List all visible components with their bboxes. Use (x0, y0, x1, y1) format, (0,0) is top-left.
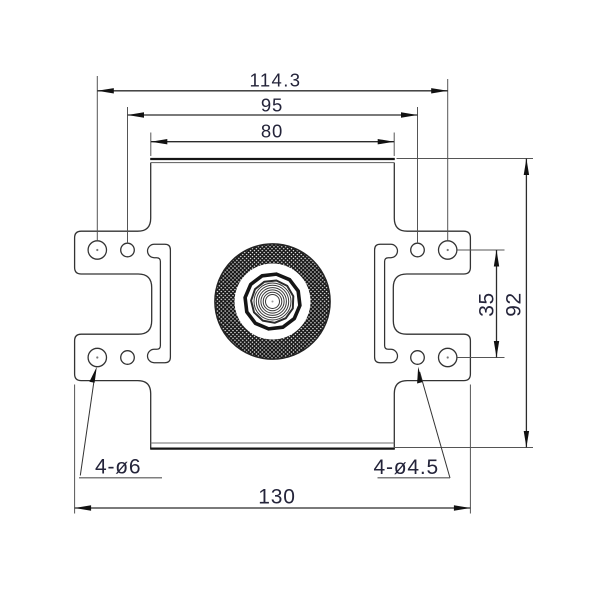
plate outline right half (393, 163, 470, 449)
svg-text:92: 92 (503, 292, 526, 317)
svg-text:35: 35 (476, 292, 499, 317)
dim line 92 (525, 159, 527, 448)
leader 4-d6 (80, 372, 95, 476)
label 4-d4.5 underline (378, 477, 451, 479)
hole big top-right (439, 241, 457, 259)
svg-text:4-ø4.5: 4-ø4.5 (374, 456, 440, 479)
dim line 95 (128, 114, 418, 116)
hole big top-left (88, 241, 106, 259)
ext line 114.3 right (447, 79, 449, 241)
center boss white core (235, 264, 311, 340)
ext line 35 top (457, 249, 504, 251)
dim line 114.3 (97, 90, 447, 92)
slot right (375, 244, 398, 362)
hole big bottom-left (88, 348, 106, 366)
top flange dark line (150, 158, 395, 160)
leader 4-d4.5 (420, 372, 450, 478)
hole small top-left (121, 243, 135, 257)
ext line 114.3 left (96, 76, 98, 241)
hole small bottom-left (121, 351, 135, 365)
ext line 95 right (417, 107, 419, 243)
center ring polygon outer (245, 274, 300, 329)
svg-text:4-ø6: 4-ø6 (95, 456, 141, 479)
ext line 80 right (393, 133, 395, 157)
svg-text:130: 130 (258, 486, 295, 509)
ext line 92 top (397, 158, 534, 160)
top edge light line (151, 162, 395, 164)
dim line 130 (75, 507, 471, 509)
ext line 95 left (127, 107, 129, 243)
ext line 130 left (74, 385, 76, 514)
center dot (272, 301, 274, 303)
center thin rings (254, 283, 291, 320)
slot left (147, 244, 170, 362)
ext line 130 right (469, 385, 471, 514)
ext line 35 bottom (457, 357, 504, 359)
hole small top-right (411, 243, 425, 257)
dim line 80 (151, 141, 394, 143)
ext line 92 bottom (394, 447, 534, 449)
svg-text:80: 80 (261, 121, 283, 142)
bottom flange dark line (150, 448, 395, 450)
center boss hatched disk (215, 244, 330, 359)
ext line 80 left (150, 133, 152, 157)
dim line 35 (496, 250, 498, 358)
label 4-d6 underline (79, 477, 162, 479)
bottom edge light line (151, 442, 395, 444)
center ring mid (251, 281, 293, 323)
hole big bottom-right (439, 348, 457, 366)
svg-text:114.3: 114.3 (250, 70, 302, 91)
plate outline left half (75, 163, 152, 449)
svg-text:95: 95 (261, 95, 283, 116)
hole small bottom-right (411, 351, 425, 365)
